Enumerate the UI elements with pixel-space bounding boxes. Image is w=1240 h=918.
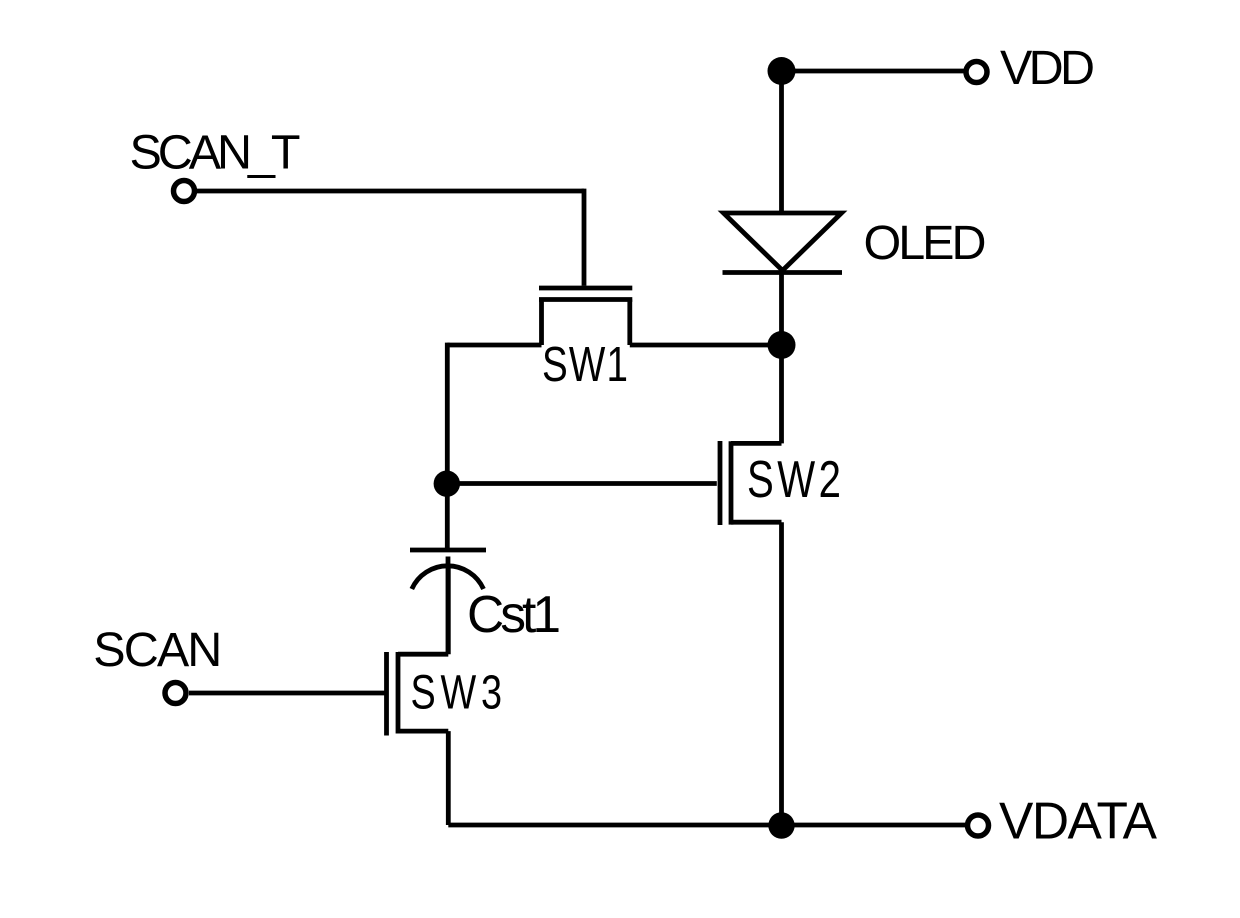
svg-text:VDATA: VDATA [999,792,1158,850]
svg-text:OLED: OLED [864,216,987,270]
svg-text:Cst1: Cst1 [467,585,561,643]
svg-text:SW1: SW1 [542,338,628,393]
svg-text:VDD: VDD [1000,41,1095,95]
svg-text:SW3: SW3 [411,666,502,720]
svg-text:SCAN_T: SCAN_T [130,125,301,179]
svg-text:SW2: SW2 [747,450,841,508]
svg-text:SCAN: SCAN [93,623,222,677]
